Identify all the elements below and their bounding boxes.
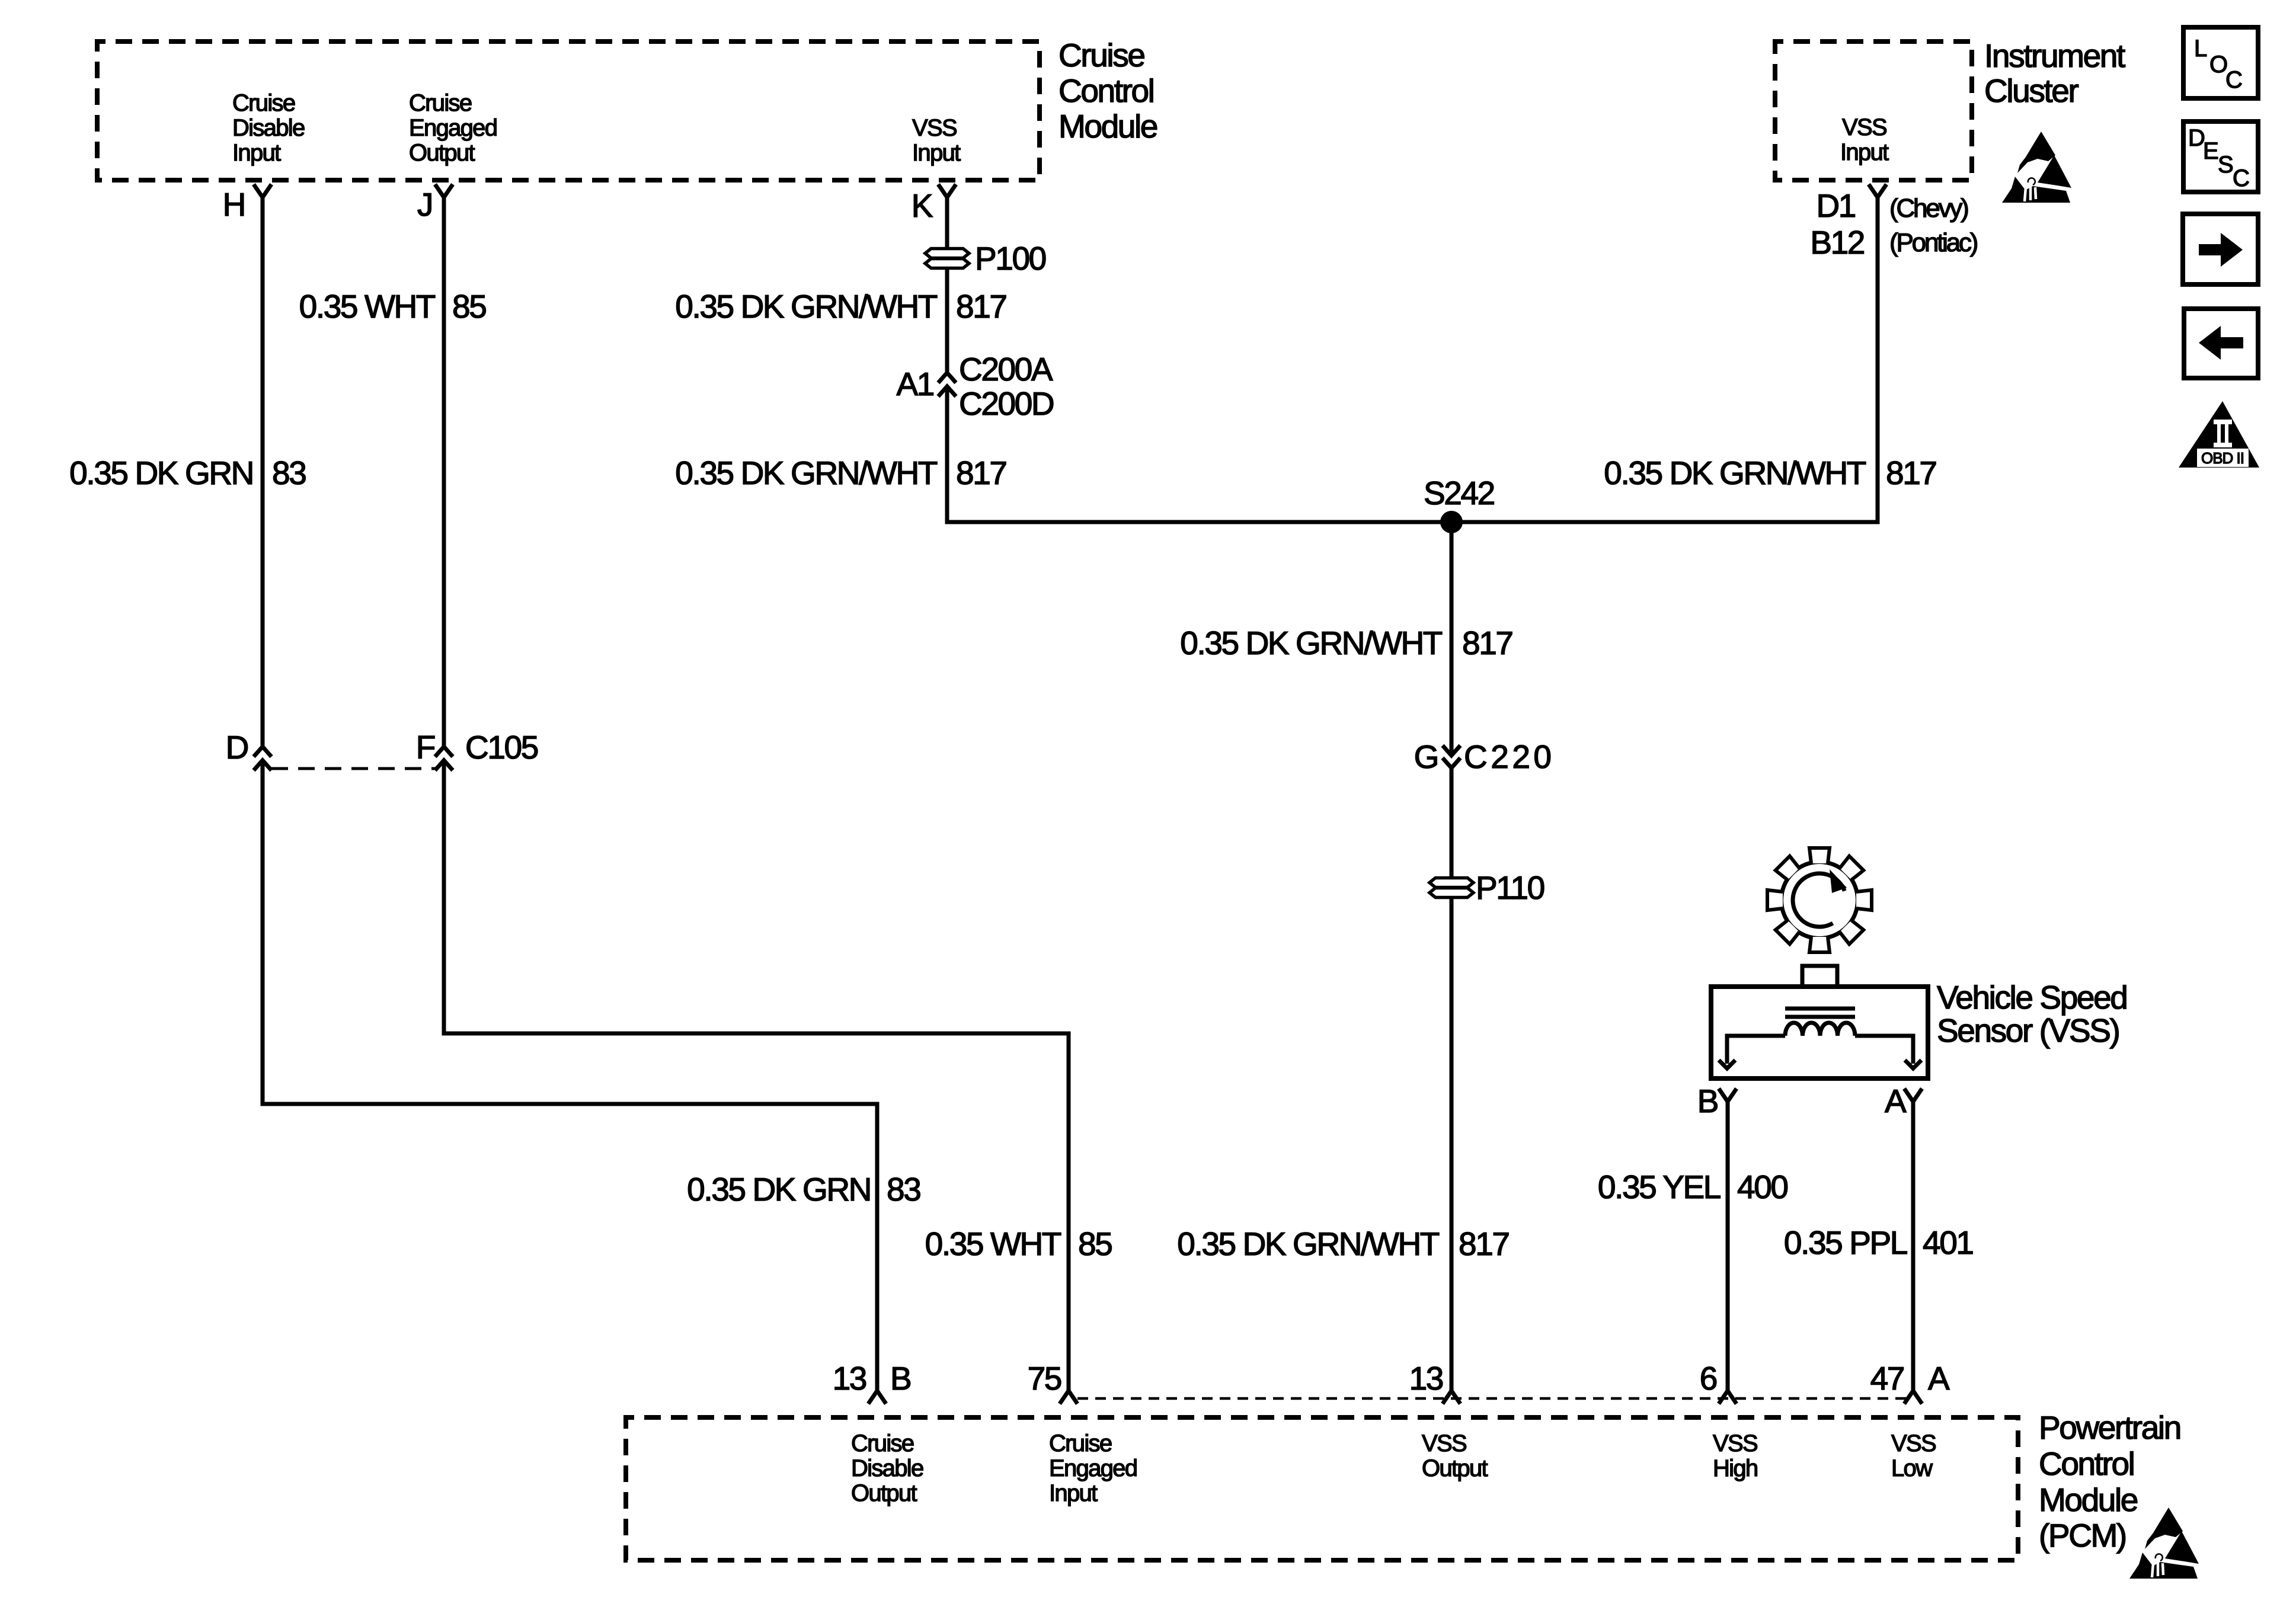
svg-text:0.35 DK GRN: 0.35 DK GRN bbox=[69, 454, 253, 491]
svg-text:0.35 WHT: 0.35 WHT bbox=[299, 288, 436, 325]
svg-text:D: D bbox=[2188, 125, 2204, 151]
svg-text:Cruise: Cruise bbox=[232, 90, 295, 116]
svg-text:Input: Input bbox=[232, 140, 281, 166]
svg-text:Instrument: Instrument bbox=[1984, 37, 2125, 74]
svg-text:83: 83 bbox=[887, 1171, 920, 1208]
svg-text:L: L bbox=[2194, 36, 2207, 62]
svg-text:0.35 DK GRN/WHT: 0.35 DK GRN/WHT bbox=[1177, 1225, 1440, 1262]
svg-text:817: 817 bbox=[1886, 454, 1936, 491]
svg-text:0.35 DK GRN/WHT: 0.35 DK GRN/WHT bbox=[1604, 454, 1866, 491]
svg-text:Cruise: Cruise bbox=[1059, 37, 1144, 73]
svg-text:S: S bbox=[2218, 152, 2233, 178]
svg-text:G: G bbox=[1414, 738, 1438, 775]
svg-text:(PCM): (PCM) bbox=[2039, 1517, 2126, 1554]
svg-text:High: High bbox=[1713, 1455, 1757, 1481]
svg-text:P110: P110 bbox=[1476, 869, 1544, 906]
svg-text:Cruise: Cruise bbox=[851, 1430, 914, 1457]
svg-text:Disable: Disable bbox=[851, 1455, 923, 1481]
svg-text:VSS: VSS bbox=[1422, 1430, 1466, 1457]
svg-text:Control: Control bbox=[2039, 1445, 2134, 1482]
svg-text:401: 401 bbox=[1923, 1224, 1973, 1261]
svg-text:Input: Input bbox=[1049, 1480, 1098, 1506]
svg-text:Control: Control bbox=[1059, 72, 1154, 109]
svg-text:Engaged: Engaged bbox=[409, 115, 497, 141]
svg-text:0.35 DK GRN/WHT: 0.35 DK GRN/WHT bbox=[1180, 625, 1443, 661]
svg-text:Output: Output bbox=[851, 1480, 917, 1506]
svg-text:817: 817 bbox=[1459, 1225, 1509, 1262]
svg-text:Powertrain: Powertrain bbox=[2039, 1409, 2180, 1446]
svg-text:Disable: Disable bbox=[232, 115, 305, 141]
svg-text:H: H bbox=[223, 186, 245, 223]
svg-text:0.35 PPL: 0.35 PPL bbox=[1784, 1224, 1907, 1261]
svg-text:400: 400 bbox=[1737, 1169, 1787, 1205]
svg-text:C: C bbox=[2233, 165, 2249, 191]
svg-text:Cluster: Cluster bbox=[1984, 72, 2078, 109]
svg-text:817: 817 bbox=[956, 454, 1006, 491]
svg-text:VSS: VSS bbox=[1842, 114, 1886, 140]
svg-text:D: D bbox=[226, 729, 248, 766]
svg-text:83: 83 bbox=[272, 454, 306, 491]
svg-text:C200A: C200A bbox=[959, 351, 1053, 388]
svg-text:Cruise: Cruise bbox=[1049, 1430, 1112, 1457]
svg-text:13: 13 bbox=[1409, 1360, 1443, 1397]
svg-text:Engaged: Engaged bbox=[1049, 1455, 1137, 1481]
svg-text:0.35 YEL: 0.35 YEL bbox=[1598, 1169, 1721, 1205]
svg-text:Low: Low bbox=[1891, 1455, 1933, 1481]
svg-text:0.35 DK GRN/WHT: 0.35 DK GRN/WHT bbox=[675, 288, 938, 325]
svg-text:OBD II: OBD II bbox=[2201, 449, 2244, 467]
svg-text:Sensor (VSS): Sensor (VSS) bbox=[1937, 1012, 2119, 1049]
svg-text:0.35 DK GRN: 0.35 DK GRN bbox=[687, 1171, 871, 1208]
svg-text:K: K bbox=[912, 187, 933, 224]
svg-text:D1: D1 bbox=[1816, 187, 1855, 224]
svg-text:C105: C105 bbox=[465, 729, 538, 766]
svg-text:Cruise: Cruise bbox=[409, 90, 472, 116]
svg-text:817: 817 bbox=[1462, 625, 1512, 661]
svg-text:C200D: C200D bbox=[959, 385, 1054, 422]
svg-text:85: 85 bbox=[1078, 1225, 1112, 1262]
svg-text:6: 6 bbox=[1700, 1360, 1717, 1397]
svg-text:Input: Input bbox=[912, 140, 961, 166]
svg-text:O: O bbox=[2209, 52, 2227, 78]
svg-text:817: 817 bbox=[956, 288, 1006, 325]
svg-text:47: 47 bbox=[1870, 1360, 1904, 1397]
svg-text:85: 85 bbox=[452, 288, 486, 325]
svg-text:0.35 DK GRN/WHT: 0.35 DK GRN/WHT bbox=[675, 454, 938, 491]
svg-text:Output: Output bbox=[1422, 1455, 1488, 1481]
svg-text:B12: B12 bbox=[1810, 224, 1864, 261]
svg-text:VSS: VSS bbox=[1891, 1430, 1936, 1457]
svg-text:Vehicle Speed: Vehicle Speed bbox=[1937, 979, 2126, 1016]
svg-text:Module: Module bbox=[1059, 108, 1157, 145]
svg-text:(Pontiac): (Pontiac) bbox=[1889, 228, 1977, 257]
svg-text:(Chevy): (Chevy) bbox=[1889, 194, 1968, 223]
svg-text:C: C bbox=[2225, 67, 2242, 93]
svg-text:A: A bbox=[1928, 1360, 1950, 1397]
svg-text:S242: S242 bbox=[1424, 475, 1494, 511]
svg-text:13: 13 bbox=[833, 1360, 866, 1397]
svg-text:C220: C220 bbox=[1464, 738, 1552, 775]
svg-text:B: B bbox=[1697, 1083, 1718, 1119]
svg-text:75: 75 bbox=[1028, 1360, 1061, 1397]
svg-text:A1: A1 bbox=[897, 366, 933, 402]
svg-text:E: E bbox=[2203, 138, 2218, 164]
svg-text:VSS: VSS bbox=[1713, 1430, 1757, 1457]
svg-text:Input: Input bbox=[1840, 139, 1889, 165]
svg-text:J: J bbox=[417, 186, 432, 223]
svg-text:A: A bbox=[1885, 1083, 1907, 1119]
svg-text:F: F bbox=[416, 729, 435, 766]
svg-text:Output: Output bbox=[409, 140, 475, 166]
svg-text:0.35 WHT: 0.35 WHT bbox=[925, 1225, 1061, 1262]
svg-text:B: B bbox=[890, 1360, 910, 1397]
svg-text:Module: Module bbox=[2039, 1481, 2138, 1518]
svg-text:VSS: VSS bbox=[912, 115, 957, 141]
svg-text:P100: P100 bbox=[975, 240, 1046, 277]
